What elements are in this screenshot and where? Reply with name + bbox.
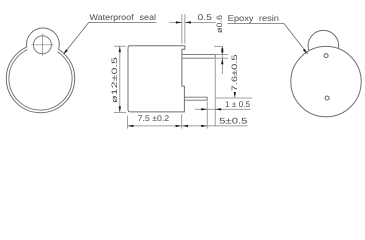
- svg-text:5±0.5: 5±0.5: [219, 117, 248, 126]
- svg-text:7.6±0.5: 7.6±0.5: [230, 53, 239, 91]
- svg-text:7.5 ±0.2: 7.5 ±0.2: [138, 114, 170, 123]
- svg-text:Waterproof seal: Waterproof seal: [90, 12, 157, 22]
- svg-text:ø0.6: ø0.6: [215, 15, 224, 33]
- svg-text:Epoxy resin: Epoxy resin: [228, 13, 280, 23]
- svg-text:0.5: 0.5: [198, 13, 213, 22]
- svg-text:1 ± 0.5: 1 ± 0.5: [225, 100, 250, 109]
- svg-text:ø12±0.5: ø12±0.5: [110, 56, 119, 103]
